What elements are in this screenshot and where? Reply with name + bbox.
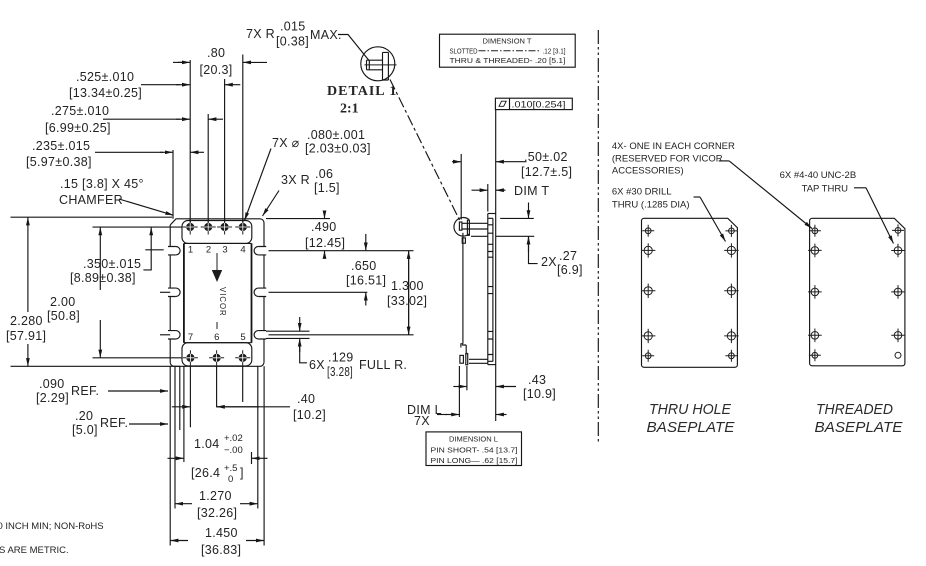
svg-text:6X #4-40 UNC-2B: 6X #4-40 UNC-2B — [780, 170, 857, 181]
dimension 1.04 — [168, 433, 268, 485]
slot left 3 — [160, 331, 180, 339]
pin numbers 7 6 5 — [188, 332, 246, 343]
svg-text:REF.: REF. — [71, 384, 99, 398]
dimension 2.280 — [6, 217, 180, 366]
bottom extension lines — [170, 365, 264, 545]
svg-text:[33.02]: [33.02] — [387, 294, 427, 308]
dimension 1.270 — [175, 489, 258, 520]
right ref line slot2 — [269, 291, 368, 293]
svg-text:+.02: +.02 — [224, 433, 243, 444]
svg-text:.490: .490 — [311, 220, 337, 234]
detail 1 pin head — [383, 52, 389, 80]
pin 5 — [235, 350, 250, 365]
svg-text:.129: .129 — [328, 351, 354, 365]
VICOR logo text — [217, 287, 227, 329]
extension line pin1 up — [189, 60, 191, 223]
ref .090 — [36, 377, 168, 405]
svg-text:DIMENSION T: DIMENSION T — [483, 37, 532, 46]
dimension .43 — [453, 366, 556, 401]
svg-text:.080±.001: .080±.001 — [307, 128, 365, 142]
svg-text:−.00: −.00 — [224, 445, 243, 456]
right ref line module top ext — [266, 218, 330, 220]
side boss column — [492, 218, 494, 361]
extension line pin3 up — [224, 79, 226, 223]
pin 4 — [235, 220, 250, 235]
svg-text:ACCESSORIES): ACCESSORIES) — [612, 166, 684, 177]
svg-text:3X R: 3X R — [281, 173, 310, 187]
svg-text:.80: .80 — [207, 46, 225, 60]
svg-text:.15 [3.8] X 45°: .15 [3.8] X 45° — [60, 177, 144, 191]
side body top edge — [488, 213, 496, 215]
svg-text:+.5: +.5 — [224, 463, 237, 474]
svg-text:[12.45]: [12.45] — [305, 236, 345, 250]
svg-text:[1.5]: [1.5] — [314, 181, 340, 195]
dimension .40 — [172, 392, 326, 422]
detail 1 pin centerline — [365, 64, 397, 66]
svg-text:DIMENSION L: DIMENSION L — [449, 435, 498, 444]
thru plate drill holes left — [641, 243, 655, 343]
dimension .80 — [173, 46, 267, 77]
svg-text:TAP THRU: TAP THRU — [802, 184, 849, 195]
extension line chamfer corner — [172, 150, 174, 219]
svg-text:DIM T: DIM T — [514, 184, 549, 198]
svg-text:[3.28]: [3.28] — [327, 365, 353, 379]
phantom line detail to side view — [390, 80, 460, 221]
svg-text:[50.8]: [50.8] — [47, 309, 80, 323]
dimension DIM L 7X — [407, 366, 507, 428]
note 6X tap thru — [780, 170, 894, 244]
svg-text:.015: .015 — [280, 20, 306, 34]
dimension 1.300 — [387, 251, 427, 335]
svg-text:5: 5 — [240, 332, 245, 343]
note 4X corner — [612, 141, 812, 229]
svg-text:2X: 2X — [541, 255, 557, 269]
svg-text:1.300: 1.300 — [391, 279, 424, 293]
svg-text:BASEPLATE: BASEPLATE — [815, 420, 903, 436]
svg-text:7: 7 — [188, 332, 193, 343]
side body left face — [487, 214, 489, 365]
svg-text:[26.4: [26.4 — [191, 466, 220, 480]
side body bottom edge — [488, 364, 496, 366]
threaded plate corner hole BL — [809, 349, 821, 361]
note metric (cropped) — [0, 545, 69, 556]
svg-text:[16.51]: [16.51] — [346, 274, 386, 288]
svg-text:THRU (.1285 DIA): THRU (.1285 DIA) — [612, 200, 690, 211]
threaded baseplate outline — [810, 218, 905, 365]
svg-text:[10.2]: [10.2] — [293, 408, 326, 422]
svg-text:VICOR: VICOR — [218, 287, 227, 317]
note 7X dia .080 — [245, 128, 371, 221]
svg-text:]: ] — [240, 466, 244, 480]
svg-text:0 INCH MIN; NON-RoHS: 0 INCH MIN; NON-RoHS — [0, 521, 104, 532]
svg-text:.275±.010: .275±.010 — [51, 104, 109, 118]
pin tip extension line — [462, 233, 464, 344]
svg-text:PIN LONG— .62 [15.7]: PIN LONG— .62 [15.7] — [431, 456, 518, 465]
svg-text:THRU HOLE: THRU HOLE — [649, 402, 731, 418]
dimension .275 — [45, 104, 223, 135]
dimension 2.00 — [47, 227, 182, 358]
svg-text:1.450: 1.450 — [205, 526, 238, 540]
svg-text:[36.83]: [36.83] — [201, 543, 241, 557]
svg-text:.650: .650 — [351, 259, 377, 273]
dimension .235 — [26, 139, 204, 169]
pin 2 — [201, 220, 216, 235]
side top pin — [459, 220, 487, 236]
pin 3 — [217, 220, 232, 235]
slot left 1 — [168, 247, 180, 255]
detail 1 label — [327, 84, 397, 117]
top pin header — [182, 221, 252, 244]
extension line pin2 up — [207, 114, 209, 223]
svg-text:[2.29]: [2.29] — [36, 391, 69, 405]
svg-text:2: 2 — [206, 245, 211, 256]
svg-text:6X: 6X — [309, 358, 325, 372]
svg-text:(RESERVED FOR VICOR: (RESERVED FOR VICOR — [612, 153, 723, 164]
thru plate corner hole TL — [642, 225, 654, 237]
svg-text:[0.38]: [0.38] — [276, 35, 309, 49]
svg-text:.27: .27 — [559, 249, 577, 263]
chamfer note — [59, 177, 174, 215]
detail 1 magnifier circle — [361, 47, 395, 81]
svg-text:S ARE METRIC.: S ARE METRIC. — [0, 545, 69, 556]
slot left 2 — [160, 288, 180, 296]
pin numbers 1 2 3 4 — [188, 245, 246, 256]
svg-text:1.04: 1.04 — [194, 437, 220, 451]
svg-text:6X #30 DRILL: 6X #30 DRILL — [612, 187, 672, 198]
svg-text:4: 4 — [240, 245, 245, 256]
dimension DIM T — [472, 184, 550, 212]
svg-text:7X R: 7X R — [246, 27, 275, 41]
svg-text:2:1: 2:1 — [340, 102, 359, 117]
svg-text:7X ⌀: 7X ⌀ — [272, 136, 300, 150]
right ref lines slot3 — [266, 331, 414, 338]
side bottom pin — [460, 344, 488, 365]
note non-RoHS (cropped) — [0, 521, 104, 532]
flange outline bottom edge — [170, 362, 264, 366]
slot right 2 — [254, 288, 266, 296]
extension line pin4 up — [242, 55, 244, 223]
svg-text:CHAMFER: CHAMFER — [59, 193, 123, 207]
svg-text:[6.99±0.25]: [6.99±0.25] — [45, 121, 111, 135]
thru plate corner hole TR — [725, 225, 737, 237]
svg-text:[8.89±0.38]: [8.89±0.38] — [70, 271, 136, 285]
svg-text:THRU & THREADED- .20 [5.1]: THRU & THREADED- .20 [5.1] — [450, 56, 566, 65]
svg-text:SLOTTED: SLOTTED — [450, 47, 478, 56]
threaded plate corner hole TR — [892, 224, 904, 236]
svg-text:[12.7±.5]: [12.7±.5] — [521, 165, 572, 179]
svg-text:0: 0 — [228, 474, 233, 485]
pin 6 — [209, 350, 224, 365]
note 7X R .015 MAX — [246, 20, 369, 61]
threaded plate corner hole TL — [809, 225, 821, 237]
side boss ticks — [488, 218, 493, 361]
pin 7 — [183, 350, 198, 365]
threaded plate tap holes left — [808, 244, 822, 343]
svg-text:2.280: 2.280 — [10, 314, 43, 328]
flatness feature control frame — [495, 98, 572, 110]
VICOR logo arrow — [212, 253, 222, 282]
svg-text:1: 1 — [188, 245, 193, 256]
note 3X R .06 — [263, 167, 340, 216]
flange outline top edge with top-left chamfer — [170, 219, 264, 247]
dimension .525 — [69, 70, 240, 100]
svg-text:2.00: 2.00 — [50, 295, 76, 309]
svg-text:PIN SHORT- .54 [13.7]: PIN SHORT- .54 [13.7] — [431, 446, 518, 455]
flange outline right edge segments between slots — [263, 255, 265, 362]
svg-text:.235±.015: .235±.015 — [32, 139, 90, 153]
svg-text:[20.3]: [20.3] — [200, 63, 233, 77]
svg-text:FULL R.: FULL R. — [359, 358, 407, 372]
threaded plate tap holes right — [891, 244, 905, 342]
svg-text:.50±.02: .50±.02 — [524, 150, 568, 164]
thru plate drill holes right — [724, 243, 738, 343]
threaded baseplate label — [815, 402, 903, 436]
slot right 1 — [254, 247, 266, 255]
dimension 1.450 — [170, 526, 264, 557]
svg-text:[32.26]: [32.26] — [197, 506, 237, 520]
detail circle on side pin — [454, 218, 469, 237]
svg-text:[6.9]: [6.9] — [557, 263, 583, 277]
pin 1 — [183, 220, 198, 235]
svg-text:7X: 7X — [414, 414, 430, 428]
svg-text:[5.0]: [5.0] — [72, 423, 98, 437]
svg-text:[5.97±0.38]: [5.97±0.38] — [26, 155, 92, 169]
dimension .350 — [70, 227, 164, 285]
svg-text:DETAIL 1: DETAIL 1 — [327, 84, 397, 99]
thru hole baseplate label — [647, 402, 735, 436]
svg-text:6: 6 — [214, 332, 219, 343]
svg-text:1.270: 1.270 — [199, 489, 232, 503]
svg-text:.090: .090 — [39, 377, 65, 391]
module body — [184, 243, 252, 342]
svg-text:4X- ONE IN EACH CORNER: 4X- ONE IN EACH CORNER — [612, 141, 735, 152]
right ref line slot1 — [269, 250, 414, 252]
thru hole baseplate outline — [642, 218, 738, 367]
dimension T table box — [440, 34, 576, 67]
detail 1 pin shank — [367, 60, 383, 70]
svg-text:.525±.010: .525±.010 — [76, 70, 134, 84]
ref .20 — [72, 409, 168, 437]
bottom pin header — [182, 343, 252, 366]
thru plate corner hole BL — [642, 350, 654, 362]
svg-text:3: 3 — [222, 245, 227, 256]
svg-text:[2.03±0.03]: [2.03±0.03] — [305, 142, 371, 156]
dimension .50 — [452, 150, 572, 220]
svg-text:.350±.015: .350±.015 — [83, 257, 141, 271]
slot right 3 — [254, 331, 266, 339]
svg-text:[13.34±0.25]: [13.34±0.25] — [69, 86, 142, 100]
section divider centerline — [597, 30, 599, 444]
side top pin base bump — [462, 238, 465, 243]
svg-text:MAX.: MAX. — [310, 28, 342, 42]
baseplate face line — [495, 110, 497, 421]
dimension L table box — [426, 432, 522, 466]
svg-text:REF.: REF. — [100, 416, 128, 430]
svg-text:.43: .43 — [528, 373, 546, 387]
flange outline left edge segments between slots — [169, 255, 171, 362]
thru plate corner hole BR — [725, 350, 737, 362]
svg-text:.12 [3.1]: .12 [3.1] — [543, 47, 566, 56]
svg-text:.06: .06 — [315, 167, 333, 181]
svg-text:BASEPLATE: BASEPLATE — [647, 420, 735, 436]
threaded plate corner hole BR plain — [895, 352, 901, 358]
svg-text:.20: .20 — [75, 409, 93, 423]
dimension .490 — [305, 213, 345, 256]
svg-text:[10.9]: [10.9] — [523, 387, 556, 401]
dimension 2X .27 — [496, 203, 583, 278]
callout 6X .129 FULL R. — [300, 317, 407, 379]
dimension .650 — [346, 234, 386, 306]
svg-text:THREADED: THREADED — [816, 402, 893, 418]
svg-text:[57.91]: [57.91] — [6, 329, 46, 343]
note 6X #30 drill — [612, 187, 726, 242]
svg-text:.40: .40 — [297, 392, 315, 406]
svg-text:.010[0.254]: .010[0.254] — [512, 100, 566, 111]
